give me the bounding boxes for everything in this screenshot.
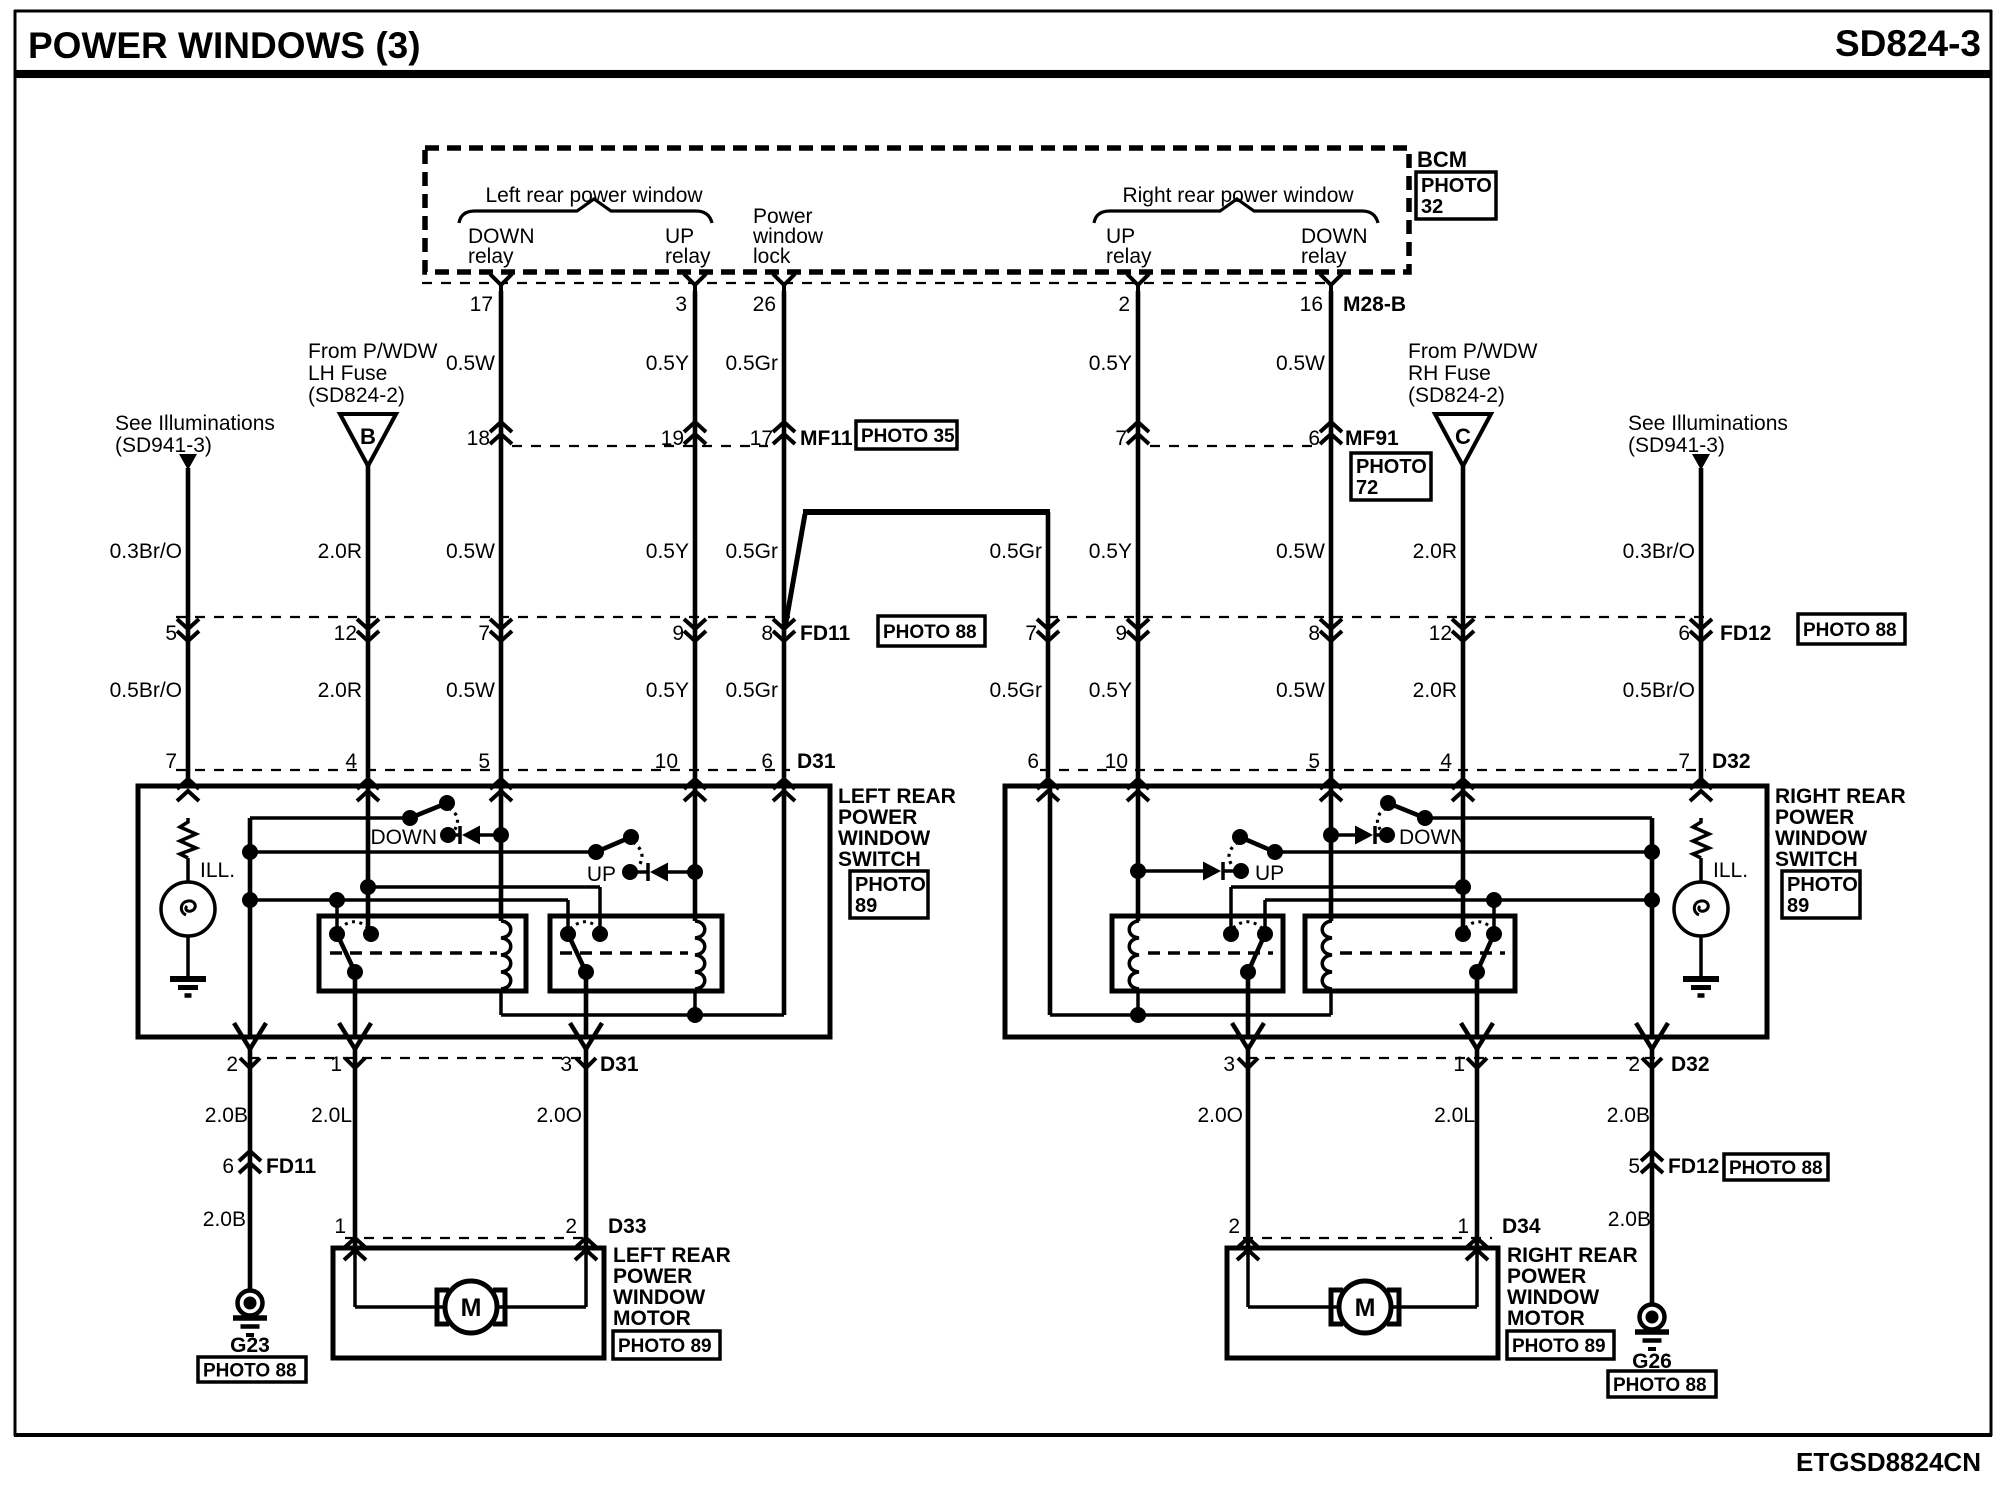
- svg-text:5: 5: [478, 750, 490, 773]
- svg-text:72: 72: [1356, 477, 1378, 499]
- svg-text:G23: G23: [230, 1334, 270, 1357]
- svg-text:PHOTO 88: PHOTO 88: [883, 622, 977, 643]
- svg-text:relay: relay: [468, 245, 514, 268]
- svg-text:From P/WDW: From P/WDW: [308, 340, 438, 363]
- svg-text:0.5Gr: 0.5Gr: [725, 679, 778, 702]
- svg-text:8: 8: [1308, 622, 1320, 645]
- svg-text:SD824-3: SD824-3: [1835, 23, 1981, 64]
- svg-text:0.5Y: 0.5Y: [646, 352, 689, 375]
- svg-text:0.5W: 0.5W: [446, 679, 495, 702]
- svg-text:2.0B: 2.0B: [203, 1208, 246, 1231]
- svg-text:5: 5: [1628, 1155, 1640, 1178]
- svg-text:PHOTO: PHOTO: [855, 874, 926, 896]
- svg-text:D33: D33: [608, 1215, 647, 1238]
- svg-text:6: 6: [1308, 427, 1320, 450]
- svg-text:2.0R: 2.0R: [318, 679, 362, 702]
- svg-text:(SD824-2): (SD824-2): [308, 384, 405, 407]
- svg-text:2.0O: 2.0O: [1197, 1104, 1243, 1127]
- svg-text:relay: relay: [1106, 245, 1152, 268]
- svg-text:PHOTO 88: PHOTO 88: [203, 1361, 297, 1382]
- svg-text:7: 7: [1025, 622, 1037, 645]
- svg-text:LEFT REAR: LEFT REAR: [838, 785, 956, 808]
- svg-text:0.5W: 0.5W: [446, 352, 495, 375]
- svg-text:LEFT REAR: LEFT REAR: [613, 1244, 731, 1267]
- svg-text:lock: lock: [753, 245, 791, 268]
- svg-text:ETGSD8824CN: ETGSD8824CN: [1796, 1447, 1981, 1477]
- svg-text:(SD941-3): (SD941-3): [1628, 434, 1725, 457]
- svg-text:DOWN: DOWN: [1399, 826, 1466, 849]
- svg-text:POWER: POWER: [1507, 1265, 1586, 1288]
- svg-text:POWER: POWER: [613, 1265, 692, 1288]
- svg-text:0.5Y: 0.5Y: [646, 540, 689, 563]
- svg-text:WINDOW: WINDOW: [1507, 1286, 1599, 1309]
- svg-text:FD12: FD12: [1720, 622, 1771, 645]
- svg-text:WINDOW: WINDOW: [838, 827, 930, 850]
- svg-text:0.5W: 0.5W: [446, 540, 495, 563]
- svg-text:relay: relay: [665, 245, 711, 268]
- svg-text:PHOTO 88: PHOTO 88: [1613, 1375, 1707, 1396]
- svg-text:relay: relay: [1301, 245, 1347, 268]
- svg-text:PHOTO 35: PHOTO 35: [861, 426, 955, 447]
- svg-text:MF91: MF91: [1345, 427, 1399, 450]
- svg-text:1: 1: [330, 1053, 342, 1076]
- svg-text:2.0R: 2.0R: [1413, 540, 1457, 563]
- svg-text:PHOTO 89: PHOTO 89: [618, 1336, 712, 1357]
- svg-text:7: 7: [478, 622, 490, 645]
- svg-text:PHOTO 88: PHOTO 88: [1803, 620, 1897, 641]
- svg-text:2.0L: 2.0L: [1434, 1104, 1475, 1127]
- svg-text:B: B: [360, 424, 376, 449]
- svg-text:PHOTO 89: PHOTO 89: [1512, 1336, 1606, 1357]
- svg-text:17: 17: [750, 427, 773, 450]
- svg-text:0.5W: 0.5W: [1276, 540, 1325, 563]
- svg-text:5: 5: [1308, 750, 1320, 773]
- svg-text:4: 4: [1440, 750, 1452, 773]
- svg-text:7: 7: [1678, 750, 1690, 773]
- svg-text:M: M: [1355, 1294, 1376, 1322]
- svg-text:0.5Gr: 0.5Gr: [725, 540, 778, 563]
- svg-text:6: 6: [222, 1155, 234, 1178]
- svg-text:4: 4: [345, 750, 357, 773]
- svg-text:0.3Br/O: 0.3Br/O: [1623, 540, 1695, 563]
- svg-text:See Illuminations: See Illuminations: [1628, 412, 1788, 435]
- svg-text:MOTOR: MOTOR: [613, 1307, 691, 1330]
- svg-text:0.5Gr: 0.5Gr: [725, 352, 778, 375]
- svg-text:3: 3: [560, 1053, 572, 1076]
- svg-text:2.0B: 2.0B: [1607, 1104, 1650, 1127]
- svg-text:2.0B: 2.0B: [1608, 1208, 1651, 1231]
- svg-text:2: 2: [226, 1053, 238, 1076]
- svg-text:10: 10: [655, 750, 678, 773]
- svg-text:3: 3: [1223, 1053, 1235, 1076]
- svg-text:PHOTO: PHOTO: [1356, 456, 1427, 478]
- svg-text:RIGHT REAR: RIGHT REAR: [1775, 785, 1906, 808]
- svg-text:1: 1: [334, 1215, 346, 1238]
- svg-text:M28-B: M28-B: [1343, 293, 1406, 316]
- svg-text:9: 9: [672, 622, 684, 645]
- svg-text:FD12: FD12: [1668, 1155, 1719, 1178]
- svg-text:D32: D32: [1712, 750, 1751, 773]
- svg-text:RH Fuse: RH Fuse: [1408, 362, 1491, 385]
- svg-text:0.5Y: 0.5Y: [1089, 679, 1132, 702]
- svg-text:FD11: FD11: [266, 1155, 317, 1178]
- svg-text:0.5W: 0.5W: [1276, 352, 1325, 375]
- svg-text:POWER: POWER: [838, 806, 917, 829]
- svg-text:D32: D32: [1671, 1053, 1710, 1076]
- svg-text:D31: D31: [600, 1053, 639, 1076]
- svg-text:WINDOW: WINDOW: [613, 1286, 705, 1309]
- svg-text:12: 12: [1429, 622, 1452, 645]
- svg-text:(SD941-3): (SD941-3): [115, 434, 212, 457]
- svg-text:7: 7: [1115, 427, 1127, 450]
- svg-text:10: 10: [1105, 750, 1128, 773]
- svg-text:0.5W: 0.5W: [1276, 679, 1325, 702]
- svg-text:2.0R: 2.0R: [318, 540, 362, 563]
- svg-text:ILL.: ILL.: [1713, 859, 1748, 882]
- svg-text:89: 89: [1787, 895, 1809, 917]
- svg-text:2: 2: [1628, 1053, 1640, 1076]
- svg-text:RIGHT REAR: RIGHT REAR: [1507, 1244, 1638, 1267]
- svg-text:2.0R: 2.0R: [1413, 679, 1457, 702]
- svg-text:(SD824-2): (SD824-2): [1408, 384, 1505, 407]
- svg-text:Left rear power window: Left rear power window: [485, 184, 703, 207]
- svg-text:SWITCH: SWITCH: [1775, 848, 1858, 871]
- svg-text:MF11: MF11: [800, 427, 853, 450]
- svg-text:From P/WDW: From P/WDW: [1408, 340, 1538, 363]
- svg-text:0.5Gr: 0.5Gr: [989, 679, 1042, 702]
- svg-text:12: 12: [334, 622, 357, 645]
- svg-text:19: 19: [661, 427, 684, 450]
- svg-text:D31: D31: [797, 750, 836, 773]
- svg-text:5: 5: [165, 622, 177, 645]
- svg-text:MOTOR: MOTOR: [1507, 1307, 1585, 1330]
- svg-text:FD11: FD11: [800, 622, 851, 645]
- svg-text:18: 18: [467, 427, 490, 450]
- svg-text:C: C: [1455, 424, 1471, 449]
- svg-text:0.5Y: 0.5Y: [1089, 352, 1132, 375]
- svg-text:7: 7: [165, 750, 177, 773]
- svg-text:26: 26: [753, 293, 776, 316]
- svg-text:UP: UP: [1255, 862, 1284, 885]
- svg-text:6: 6: [1678, 622, 1690, 645]
- svg-text:6: 6: [1027, 750, 1039, 773]
- svg-text:16: 16: [1300, 293, 1323, 316]
- svg-text:2: 2: [1118, 293, 1130, 316]
- svg-text:ILL.: ILL.: [200, 859, 235, 882]
- svg-text:2.0B: 2.0B: [205, 1104, 248, 1127]
- svg-text:D34: D34: [1502, 1215, 1541, 1238]
- svg-text:0.5Br/O: 0.5Br/O: [110, 679, 182, 702]
- svg-text:PHOTO: PHOTO: [1421, 175, 1492, 197]
- svg-text:0.5Y: 0.5Y: [646, 679, 689, 702]
- svg-text:32: 32: [1421, 196, 1443, 218]
- svg-text:See Illuminations: See Illuminations: [115, 412, 275, 435]
- svg-text:0.3Br/O: 0.3Br/O: [110, 540, 182, 563]
- svg-text:M: M: [461, 1294, 482, 1322]
- svg-text:POWER WINDOWS (3): POWER WINDOWS (3): [28, 25, 421, 66]
- svg-text:0.5Gr: 0.5Gr: [989, 540, 1042, 563]
- svg-text:89: 89: [855, 895, 877, 917]
- svg-text:WINDOW: WINDOW: [1775, 827, 1867, 850]
- svg-text:1: 1: [1453, 1053, 1465, 1076]
- svg-text:SWITCH: SWITCH: [838, 848, 921, 871]
- svg-text:UP: UP: [587, 863, 616, 886]
- svg-text:2: 2: [1228, 1215, 1240, 1238]
- svg-text:17: 17: [470, 293, 493, 316]
- svg-text:DOWN: DOWN: [371, 826, 438, 849]
- svg-text:3: 3: [675, 293, 687, 316]
- svg-text:PHOTO: PHOTO: [1787, 874, 1858, 896]
- svg-text:LH Fuse: LH Fuse: [308, 362, 387, 385]
- svg-text:0.5Br/O: 0.5Br/O: [1623, 679, 1695, 702]
- svg-text:PHOTO 88: PHOTO 88: [1729, 1158, 1823, 1179]
- svg-text:POWER: POWER: [1775, 806, 1854, 829]
- svg-text:0.5Y: 0.5Y: [1089, 540, 1132, 563]
- svg-text:Right rear power window: Right rear power window: [1122, 184, 1354, 207]
- svg-text:BCM: BCM: [1417, 147, 1467, 172]
- svg-text:1: 1: [1457, 1215, 1469, 1238]
- svg-text:2.0O: 2.0O: [536, 1104, 582, 1127]
- svg-text:9: 9: [1115, 622, 1127, 645]
- svg-text:8: 8: [761, 622, 773, 645]
- svg-text:2: 2: [565, 1215, 577, 1238]
- svg-text:6: 6: [761, 750, 773, 773]
- svg-text:2.0L: 2.0L: [311, 1104, 352, 1127]
